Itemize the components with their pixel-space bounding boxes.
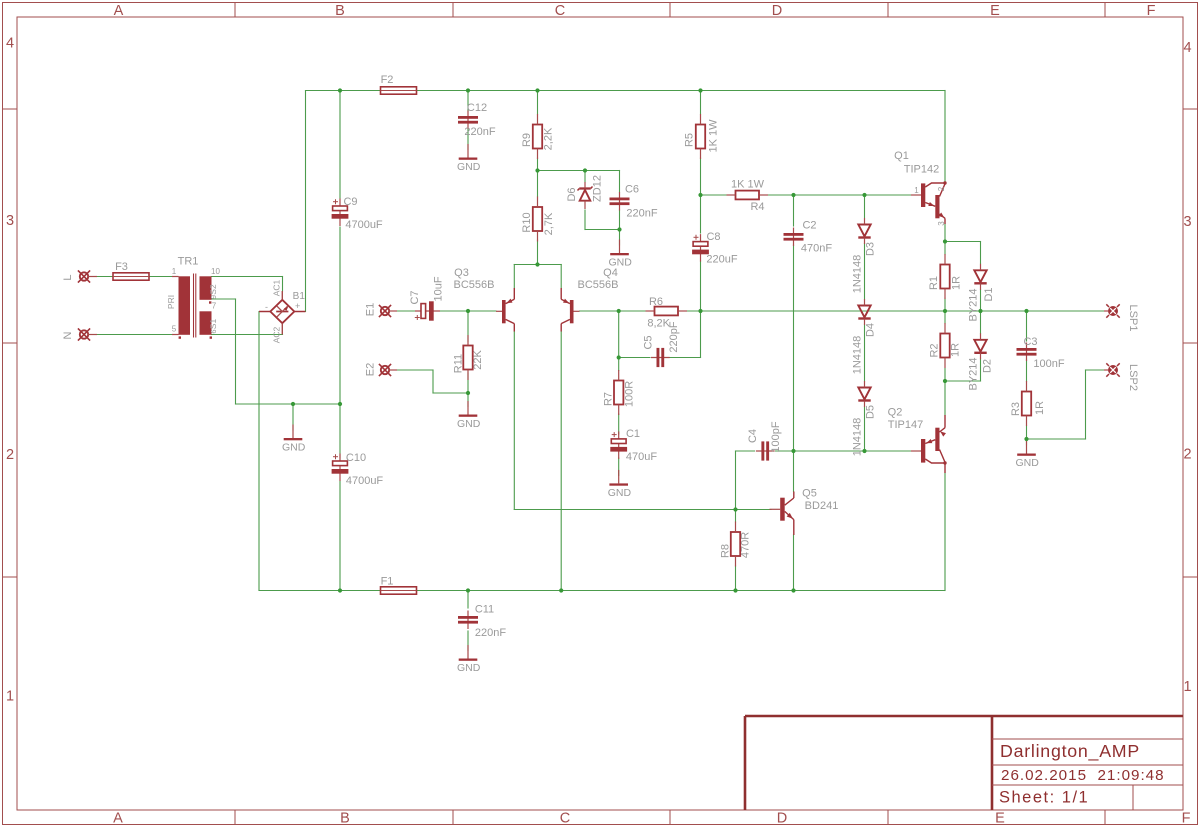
svg-text:100R: 100R bbox=[623, 381, 635, 407]
svg-text:D: D bbox=[777, 810, 787, 826]
svg-text:C10: C10 bbox=[346, 452, 366, 464]
svg-text:C2: C2 bbox=[802, 219, 816, 231]
svg-text:4: 4 bbox=[6, 36, 14, 52]
svg-text:22K: 22K bbox=[472, 350, 484, 370]
svg-text:LSP2: LSP2 bbox=[1127, 364, 1139, 391]
svg-text:220nF: 220nF bbox=[475, 627, 506, 639]
svg-text:2: 2 bbox=[6, 447, 14, 463]
svg-text:4: 4 bbox=[1183, 40, 1191, 56]
svg-text:E: E bbox=[995, 810, 1005, 826]
svg-text:R6: R6 bbox=[649, 296, 663, 308]
svg-text:R7: R7 bbox=[602, 392, 614, 406]
svg-text:GND: GND bbox=[457, 161, 481, 173]
svg-text:26.02.2015 21:09:48: 26.02.2015 21:09:48 bbox=[1001, 767, 1165, 784]
svg-text:BY214: BY214 bbox=[967, 357, 979, 390]
svg-text:5: 5 bbox=[172, 324, 177, 333]
svg-text:100pF: 100pF bbox=[770, 421, 782, 452]
svg-text:C6: C6 bbox=[625, 183, 639, 195]
svg-text:10: 10 bbox=[211, 267, 220, 276]
svg-text:8,2K: 8,2K bbox=[647, 317, 670, 329]
svg-text:TR1: TR1 bbox=[178, 255, 199, 267]
svg-text:GND: GND bbox=[1016, 457, 1040, 469]
svg-text:GND: GND bbox=[457, 662, 481, 674]
svg-text:3: 3 bbox=[1183, 214, 1191, 230]
svg-text:C9: C9 bbox=[343, 196, 357, 208]
svg-text:F: F bbox=[1182, 810, 1191, 826]
svg-text:Q3: Q3 bbox=[454, 267, 469, 279]
svg-text:1K 1W: 1K 1W bbox=[731, 178, 765, 190]
svg-text:C4: C4 bbox=[747, 429, 759, 443]
svg-text:F: F bbox=[1147, 3, 1156, 19]
svg-text:ZD12: ZD12 bbox=[591, 175, 603, 202]
svg-text:R2: R2 bbox=[928, 343, 940, 357]
svg-text:1N4148: 1N4148 bbox=[851, 255, 863, 294]
svg-text:R9: R9 bbox=[521, 133, 533, 147]
svg-text:N: N bbox=[62, 331, 74, 339]
svg-text:B: B bbox=[335, 3, 345, 19]
svg-text:BY214: BY214 bbox=[967, 288, 979, 321]
svg-text:GND: GND bbox=[608, 487, 632, 499]
svg-text:220uF: 220uF bbox=[706, 253, 737, 265]
svg-text:C11: C11 bbox=[475, 603, 494, 615]
svg-text:100nF: 100nF bbox=[1033, 358, 1064, 370]
svg-text:E1: E1 bbox=[364, 303, 376, 316]
svg-text:Q1: Q1 bbox=[894, 150, 909, 162]
svg-text:C5: C5 bbox=[642, 335, 654, 349]
svg-text:C7: C7 bbox=[409, 290, 421, 304]
svg-text:Sheet: 1/1: Sheet: 1/1 bbox=[999, 788, 1089, 806]
svg-text:470uF: 470uF bbox=[626, 451, 657, 463]
svg-text:D2: D2 bbox=[981, 359, 993, 373]
svg-text:S1: S1 bbox=[208, 319, 218, 330]
svg-text:C: C bbox=[555, 3, 565, 19]
svg-text:470R: 470R bbox=[739, 532, 751, 558]
svg-text:A: A bbox=[113, 810, 123, 826]
svg-text:F3: F3 bbox=[115, 261, 128, 273]
svg-text:C3: C3 bbox=[1023, 336, 1037, 348]
svg-text:2,2K: 2,2K bbox=[542, 127, 554, 150]
svg-text:R11: R11 bbox=[452, 354, 464, 373]
svg-text:1R: 1R bbox=[950, 276, 962, 290]
svg-text:10uF: 10uF bbox=[432, 276, 444, 301]
svg-text:Q4: Q4 bbox=[603, 267, 618, 279]
svg-text:AC2: AC2 bbox=[271, 326, 281, 343]
svg-text:R1: R1 bbox=[928, 276, 940, 290]
svg-text:B: B bbox=[340, 810, 350, 826]
svg-text:220nF: 220nF bbox=[464, 126, 495, 138]
svg-text:BC556B: BC556B bbox=[578, 279, 619, 291]
svg-text:C12: C12 bbox=[467, 102, 487, 114]
svg-text:R3: R3 bbox=[1010, 402, 1022, 416]
svg-text:R8: R8 bbox=[719, 544, 731, 558]
svg-text:3: 3 bbox=[6, 213, 14, 229]
svg-text:GND: GND bbox=[282, 441, 306, 453]
svg-text:1N4148: 1N4148 bbox=[851, 418, 863, 457]
svg-text:D5: D5 bbox=[864, 405, 876, 419]
svg-text:Q2: Q2 bbox=[888, 407, 903, 419]
svg-text:L: L bbox=[62, 274, 74, 280]
svg-text:2: 2 bbox=[1183, 447, 1191, 463]
svg-text:D1: D1 bbox=[983, 287, 995, 301]
svg-text:A: A bbox=[114, 3, 124, 19]
svg-text:R5: R5 bbox=[683, 133, 695, 147]
svg-text:D4: D4 bbox=[864, 323, 876, 337]
svg-text:2: 2 bbox=[937, 186, 946, 191]
svg-text:220nF: 220nF bbox=[626, 207, 657, 219]
svg-text:BD241: BD241 bbox=[805, 500, 839, 512]
svg-text:1: 1 bbox=[914, 186, 919, 195]
svg-text:Darlington_AMP: Darlington_AMP bbox=[1000, 741, 1140, 762]
svg-text:LSP1: LSP1 bbox=[1127, 305, 1139, 332]
svg-text:F1: F1 bbox=[381, 575, 394, 587]
svg-text:F2: F2 bbox=[381, 74, 394, 86]
svg-text:470nF: 470nF bbox=[801, 242, 832, 254]
svg-text:AC1: AC1 bbox=[271, 279, 281, 296]
svg-text:1N4148: 1N4148 bbox=[851, 336, 863, 375]
svg-text:D6: D6 bbox=[566, 187, 578, 201]
svg-text:TIP142: TIP142 bbox=[904, 163, 939, 175]
svg-text:R4: R4 bbox=[750, 201, 764, 213]
svg-text:Q5: Q5 bbox=[802, 487, 817, 499]
svg-text:1: 1 bbox=[172, 267, 177, 276]
svg-text:C1: C1 bbox=[626, 428, 640, 440]
svg-text:1R: 1R bbox=[1034, 401, 1046, 415]
svg-text:R10: R10 bbox=[521, 212, 533, 232]
svg-text:D3: D3 bbox=[864, 242, 876, 256]
svg-text:C8: C8 bbox=[706, 231, 720, 243]
svg-text:4700uF: 4700uF bbox=[345, 219, 383, 231]
svg-text:1: 1 bbox=[6, 689, 14, 705]
svg-text:PRI: PRI bbox=[166, 295, 176, 309]
svg-text:B1: B1 bbox=[293, 291, 306, 302]
svg-text:1: 1 bbox=[1183, 679, 1191, 695]
svg-text:4700uF: 4700uF bbox=[346, 475, 384, 487]
svg-text:2,7K: 2,7K bbox=[543, 212, 555, 235]
svg-text:1K 1W: 1K 1W bbox=[707, 119, 719, 153]
svg-text:E2: E2 bbox=[364, 363, 376, 376]
svg-text:3: 3 bbox=[937, 221, 946, 226]
svg-text:GND: GND bbox=[457, 418, 481, 430]
svg-text:TIP147: TIP147 bbox=[888, 419, 923, 431]
svg-text:D: D bbox=[772, 3, 782, 19]
svg-text:-: - bbox=[265, 302, 268, 312]
svg-text:C: C bbox=[560, 810, 570, 826]
svg-text:E: E bbox=[990, 3, 1000, 19]
svg-text:BC556B: BC556B bbox=[454, 279, 495, 291]
svg-text:S2: S2 bbox=[208, 284, 218, 295]
svg-text:1R: 1R bbox=[949, 343, 961, 357]
svg-text:+: + bbox=[295, 301, 300, 311]
svg-text:7: 7 bbox=[212, 301, 217, 310]
